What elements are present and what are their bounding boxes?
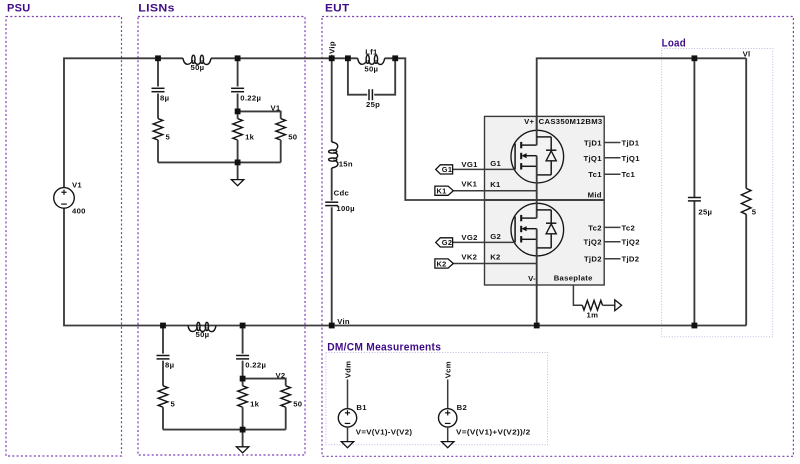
junction LISN cap1 tap [155, 55, 161, 61]
svg-text:TjQ2: TjQ2 [622, 238, 640, 247]
svg-text:VG1: VG1 [461, 160, 478, 169]
transistor Q1 SiC MOSFET [511, 130, 564, 183]
input tag K1 [435, 186, 453, 195]
junction Lf1 input [345, 55, 351, 61]
pin stub TjD2 [604, 258, 620, 260]
pin stub TjQ1 [604, 157, 620, 159]
svg-text:VK2: VK2 [461, 252, 477, 261]
svg-text:Vip: Vip [328, 41, 337, 54]
svg-text:Tc2: Tc2 [622, 223, 636, 232]
svg-text:B2: B2 [457, 403, 467, 412]
svg-text:DM/CM Measurements: DM/CM Measurements [327, 342, 441, 354]
wire 50 to bottom bar [280, 140, 282, 162]
LISNs section box [138, 17, 305, 456]
wire measure node to 50 ohm [243, 379, 286, 386]
wire Mid inside module [485, 199, 605, 201]
power module U1 CAS350M12BM3 [485, 116, 605, 285]
wire LISN cap1 top lead [157, 58, 159, 86]
wire measure node to 50 ohm [238, 111, 281, 118]
svg-text:50µ: 50µ [196, 330, 210, 339]
pin stub Tc1 [604, 173, 620, 175]
resistor 1k [238, 386, 248, 407]
wire resistor to bottom bar [162, 407, 164, 429]
pin stub TjQ2 [604, 241, 620, 243]
body diode D1 [546, 149, 556, 151]
input tag G2 [436, 238, 453, 247]
wire load capacitor top lead [693, 58, 695, 197]
wire cap1 to resistor [157, 94, 159, 119]
junction bottom bar [240, 427, 246, 433]
wire 50 to bottom bar [285, 407, 287, 429]
svg-text:Tc1: Tc1 [588, 170, 602, 179]
svg-text:K1: K1 [436, 187, 446, 196]
PSU section box [6, 17, 122, 457]
EUT section box [322, 17, 793, 457]
svg-text:VG2: VG2 [461, 233, 477, 242]
svg-text:Tc1: Tc1 [622, 170, 636, 179]
wire V- lead to bottom rail [536, 285, 538, 326]
svg-text:Vin: Vin [337, 317, 350, 326]
wire load capacitor bottom lead [693, 201, 695, 325]
wire bottom rail [64, 208, 746, 325]
behavioral source B2 [439, 409, 457, 427]
junction measure node [240, 376, 246, 382]
junction LISN cap2 tap [235, 55, 241, 61]
junction V- on bottom rail [534, 323, 540, 329]
svg-text:K1: K1 [490, 180, 501, 189]
svg-text:8µ: 8µ [160, 94, 169, 103]
pin stub Tc2 [604, 226, 620, 228]
wire 1k to bottom bar [242, 407, 244, 429]
wire B1 probe top [347, 380, 349, 409]
capacitor 0.22µ [236, 355, 249, 357]
svg-text:LISNs: LISNs [138, 3, 175, 15]
pin stub TjD1 [604, 142, 620, 144]
svg-text:V1: V1 [72, 181, 82, 190]
wire V+ rail to load [537, 58, 747, 145]
svg-text:5: 5 [752, 207, 757, 216]
wire LISN bottom bar [158, 161, 281, 163]
svg-text:50µ: 50µ [364, 64, 378, 73]
wire top rail LISN to Lf1 [211, 57, 358, 59]
svg-text:Mid: Mid [588, 190, 602, 199]
svg-text:25µ: 25µ [698, 207, 712, 216]
wire 25p branch left [348, 58, 367, 94]
wire 1k to bottom bar [237, 140, 239, 162]
junction LISN cap2 tap [240, 323, 246, 329]
svg-text:8µ: 8µ [165, 361, 174, 370]
junction LISN cap1 tap [160, 323, 166, 329]
transistor Q2 SiC MOSFET [511, 203, 564, 256]
junction bottom bar [235, 160, 241, 166]
wire 25p branch right [374, 58, 395, 94]
svg-text:G2: G2 [442, 238, 452, 247]
wire cap2 top lead [242, 326, 244, 354]
junction Lf1 output [392, 55, 398, 61]
terminal arrow baseplate [615, 300, 622, 311]
wire resistor to bottom bar [157, 140, 159, 162]
svg-text:Load: Load [662, 37, 686, 49]
svg-text:15n: 15n [339, 159, 353, 168]
svg-text:V+: V+ [524, 117, 534, 126]
svg-text:5: 5 [166, 132, 171, 141]
svg-text:G1: G1 [490, 159, 501, 168]
svg-text:K2: K2 [490, 253, 500, 262]
svg-text:TjD1: TjD1 [622, 139, 640, 148]
body diode D2 [546, 222, 556, 224]
wire node to 1k [242, 379, 244, 386]
wire 1m to terminal [603, 304, 615, 306]
wire 15n to Cdc [331, 168, 333, 201]
wire cap2 top lead [237, 58, 239, 86]
input tag G1 [436, 165, 453, 174]
svg-text:TjQ1: TjQ1 [584, 154, 603, 163]
wire cap2 to node [237, 94, 239, 112]
svg-text:1k: 1k [250, 400, 260, 409]
wire load resistor bottom lead [745, 214, 747, 325]
ground [236, 447, 248, 453]
wire cap1 to resistor [162, 361, 164, 386]
svg-text:V2: V2 [275, 371, 285, 380]
resistor 5 [153, 119, 163, 140]
inductor Lf1 50µ [358, 58, 385, 64]
resistor 50 [276, 119, 286, 140]
capacitor Cdc 100µ [325, 201, 338, 203]
svg-text:50: 50 [288, 132, 297, 141]
capacitor 25µ load [688, 197, 701, 199]
svg-text:V1: V1 [270, 104, 280, 113]
svg-text:Tc2: Tc2 [588, 223, 602, 232]
input tag K2 [435, 259, 453, 268]
svg-text:Lf1: Lf1 [365, 47, 378, 56]
wire ground stem [237, 162, 239, 179]
wire cap2 to node [242, 361, 244, 379]
svg-text:PSU: PSU [7, 3, 31, 15]
ground [341, 442, 353, 448]
svg-text:1k: 1k [245, 132, 255, 141]
svg-text:Vcm: Vcm [444, 361, 453, 378]
svg-text:400: 400 [72, 207, 86, 216]
svg-text:1m: 1m [587, 311, 599, 320]
svg-text:0.22µ: 0.22µ [245, 361, 266, 370]
svg-text:Vl: Vl [743, 50, 751, 59]
svg-text:G2: G2 [490, 232, 501, 241]
svg-text:TjD2: TjD2 [584, 255, 602, 264]
svg-text:TjQ1: TjQ1 [622, 154, 641, 163]
svg-text:CAS350M12BM3: CAS350M12BM3 [539, 117, 603, 126]
svg-text:TjQ2: TjQ2 [584, 238, 602, 247]
wire LISN cap1 top lead [162, 326, 164, 354]
behavioral source B1 [338, 409, 356, 427]
svg-text:VK1: VK1 [461, 180, 477, 189]
inductor 50µ [188, 326, 216, 332]
wire ground stem [242, 430, 244, 447]
inductor 50µ [183, 58, 211, 64]
voltage source V1 PSU 400V [54, 188, 75, 209]
capacitor 8µ [152, 87, 165, 89]
capacitor 0.22µ [231, 87, 244, 89]
wire B2 to ground [447, 427, 449, 442]
resistor 1m baseplate [582, 301, 602, 311]
wire Lf1 output elbow down to Mid node [385, 58, 604, 200]
wire B2 probe top [447, 380, 449, 409]
resistor 5 load [741, 188, 751, 214]
wire Vip down to 15n [331, 58, 333, 142]
wire top rail from PSU to LISN inductor [64, 58, 183, 187]
svg-text:TjD1: TjD1 [584, 139, 602, 148]
junction measure node [235, 109, 241, 115]
svg-text:Vdm: Vdm [343, 361, 352, 379]
junction Vip [329, 55, 335, 61]
resistor 5 [158, 386, 168, 407]
capacitor 25p [368, 89, 370, 100]
resistor 1k [233, 119, 243, 140]
wire load resistor top lead [745, 58, 747, 188]
wire LISN bottom bar [163, 429, 286, 431]
junction Vin [329, 323, 335, 329]
wire node to 1k [237, 111, 239, 118]
junction load cap top [692, 55, 698, 61]
node label Vip (vertical) [331, 55, 333, 59]
capacitor 8µ [157, 355, 170, 357]
svg-text:25p: 25p [366, 100, 380, 109]
svg-text:100µ: 100µ [336, 204, 354, 213]
resistor 50 [281, 386, 291, 407]
svg-text:50: 50 [293, 400, 302, 409]
svg-text:G1: G1 [442, 165, 452, 174]
svg-text:0.22µ: 0.22µ [240, 94, 261, 103]
wire K1 kelvin source [453, 190, 537, 192]
svg-text:TjD2: TjD2 [622, 255, 640, 264]
inductor 15n [332, 142, 338, 168]
DM/CM Measurements section box [326, 353, 548, 445]
ground [442, 442, 454, 448]
wire K2 kelvin source [453, 263, 537, 265]
wire Cdc to Vin [331, 207, 333, 325]
wire B1 to ground [347, 427, 349, 442]
wire Baseplate lead [573, 285, 582, 305]
svg-text:EUT: EUT [325, 3, 350, 15]
svg-text:B1: B1 [356, 403, 367, 412]
ground [231, 180, 243, 186]
svg-text:Cdc: Cdc [334, 189, 350, 198]
junction load cap bottom [692, 323, 698, 329]
svg-text:Baseplate: Baseplate [554, 273, 593, 282]
Load section box [662, 49, 773, 337]
svg-text:V=(V(V1)+V(V2))/2: V=(V(V1)+V(V2))/2 [456, 427, 531, 436]
svg-text:5: 5 [171, 400, 176, 409]
svg-text:V-: V- [528, 274, 536, 283]
svg-text:50µ: 50µ [191, 63, 205, 72]
svg-text:V=V(V1)-V(V2): V=V(V1)-V(V2) [356, 427, 413, 436]
svg-text:K2: K2 [436, 259, 446, 268]
